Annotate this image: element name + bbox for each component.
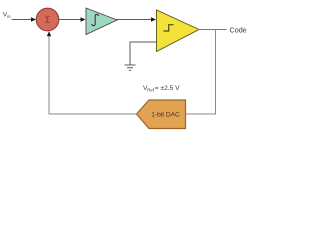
arrowhead into summer bbox=[31, 17, 36, 21]
summing junction S1 bbox=[36, 8, 59, 31]
comparator U2 bbox=[157, 10, 200, 52]
wire comparator minus input bbox=[130, 42, 157, 65]
label Vin bbox=[3, 12, 11, 20]
integrator U1 bbox=[86, 8, 117, 35]
svg-text:Ref: Ref bbox=[147, 88, 154, 93]
svg-text:1-bit DAC: 1-bit DAC bbox=[151, 111, 180, 118]
wire feedback bottom to summer bbox=[49, 36, 137, 115]
label Vref bbox=[143, 85, 180, 93]
svg-text:= ±2.5 V: = ±2.5 V bbox=[155, 85, 180, 92]
wire comparator output to Code bbox=[198, 29, 227, 31]
wire feedback right vertical bbox=[186, 30, 216, 115]
wire Vin to summer bbox=[12, 19, 32, 21]
DAC U3 bbox=[137, 100, 186, 129]
wire summer to integrator bbox=[59, 19, 81, 21]
ground bbox=[125, 65, 136, 70]
wire integrator to comparator bbox=[116, 19, 151, 21]
arrowhead into integrator bbox=[81, 17, 86, 21]
svg-text:Code: Code bbox=[230, 25, 247, 34]
arrowhead into summer bottom bbox=[47, 31, 51, 36]
svg-text:Σ: Σ bbox=[45, 15, 50, 24]
svg-text:in: in bbox=[7, 14, 11, 19]
arrowhead into comparator bbox=[151, 17, 156, 21]
